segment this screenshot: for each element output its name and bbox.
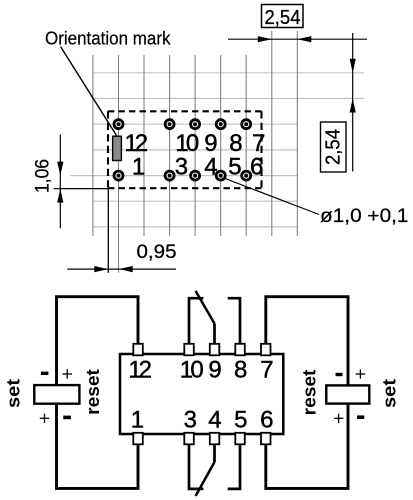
pad 10 xyxy=(165,120,174,129)
polarity plus (left coil, bottom-left) xyxy=(40,414,50,423)
svg-text:set: set xyxy=(380,379,400,408)
svg-text:reset: reset xyxy=(83,369,103,415)
wire: pin 8 fixed contact (up, bar left) xyxy=(228,298,240,345)
orientation mark bar xyxy=(113,136,122,160)
dimension 2,54 right: dimension line xyxy=(352,33,354,172)
wire: left loop (pin 12 top, around left side, to pin 1 bottom) xyxy=(57,297,139,489)
wire: pin 10 fixed contact (up, bar right) xyxy=(189,298,203,345)
pad number labels (footprint) xyxy=(125,130,266,181)
pad 5 xyxy=(216,171,225,180)
pin 9 stub xyxy=(210,344,220,356)
pin 1 stub xyxy=(133,433,143,445)
pin 12 stub xyxy=(133,344,143,356)
wire: pin 3 fixed contact (down, bar right) xyxy=(189,444,203,489)
svg-text:3: 3 xyxy=(184,406,197,433)
svg-text:1,06: 1,06 xyxy=(33,159,54,193)
pin number labels (schematic) xyxy=(128,357,273,434)
svg-text:set: set xyxy=(4,379,24,408)
dimension 1,06 left: extension line xyxy=(54,188,109,190)
pin 10 stub xyxy=(184,344,194,356)
pin 7 stub xyxy=(261,344,271,356)
coil set/reset left xyxy=(34,385,79,404)
leader line hole diameter xyxy=(223,178,320,215)
pad 6 xyxy=(242,171,251,180)
pad 3 xyxy=(165,171,174,180)
svg-text:9: 9 xyxy=(208,357,221,384)
svg-text:0,95: 0,95 xyxy=(137,242,177,263)
svg-text:1: 1 xyxy=(132,153,145,180)
svg-text:8: 8 xyxy=(234,357,247,384)
svg-text:10: 10 xyxy=(180,357,204,384)
svg-text:2,54: 2,54 xyxy=(265,6,301,29)
svg-text:2,54: 2,54 xyxy=(322,129,345,165)
svg-text:Orientation mark: Orientation mark xyxy=(45,29,171,49)
pin 8 stub xyxy=(235,344,245,356)
dimension 0,95 bottom: extension line xyxy=(107,189,109,273)
polarity minus (left coil, bottom-right) xyxy=(63,416,71,420)
wire: pin 4 common with switch blade xyxy=(213,444,216,462)
dimension 0,95 bottom: arrowheads xyxy=(94,266,108,272)
svg-text:5: 5 xyxy=(234,406,247,433)
svg-text:reset: reset xyxy=(300,370,320,416)
polarity minus (left coil, top-left) xyxy=(41,372,48,375)
dimension 2,54 top: dimension line xyxy=(228,38,367,40)
pad 12 xyxy=(114,120,123,129)
leader line to orientation mark xyxy=(61,47,117,136)
dimension 2,54 top: arrowheads xyxy=(258,36,272,42)
relay outline (dashed footprint rectangle) xyxy=(108,111,262,188)
pin 3 stub xyxy=(184,433,194,445)
svg-text:5: 5 xyxy=(228,153,241,180)
coil set/reset right xyxy=(326,385,369,403)
pad 8 xyxy=(216,120,225,129)
svg-text:6: 6 xyxy=(260,406,273,433)
relay body U1 xyxy=(120,354,283,434)
dimension 1,06 left: dimension line xyxy=(59,135,61,229)
polarity minus (right coil, top-left) xyxy=(336,373,343,376)
dimension 1,06 left: arrowheads xyxy=(57,162,63,176)
pad 4 xyxy=(191,171,200,180)
svg-text:1: 1 xyxy=(131,406,144,433)
pin 6 stub xyxy=(261,433,271,445)
dimension 2,54 right: arrowheads xyxy=(350,59,356,73)
wire: right loop (pin 7 top, around right side, to pin 6 bottom) xyxy=(266,297,348,489)
pad 7 xyxy=(242,120,251,129)
polarity plus (right coil, top-right) xyxy=(356,369,366,378)
svg-text:3: 3 xyxy=(175,153,188,180)
wire: pin 9 common with switch blade xyxy=(213,324,216,345)
polarity plus (right coil, bottom-left) xyxy=(334,414,344,423)
svg-text:4: 4 xyxy=(208,406,221,433)
grid horizontal raster lines xyxy=(70,73,364,227)
svg-text:12: 12 xyxy=(128,357,152,384)
svg-text:ø1,0 +0,1: ø1,0 +0,1 xyxy=(320,206,409,227)
svg-text:7: 7 xyxy=(260,357,273,384)
polarity minus (right coil, bottom-right) xyxy=(357,415,364,419)
dimension 0,95 bottom: dimension line xyxy=(67,268,176,270)
dimension 2,54 top: framed value xyxy=(262,5,304,28)
pin 4 stub xyxy=(210,433,220,445)
pad 9 xyxy=(191,120,200,129)
dimension 2,54 right: framed value (rotated) xyxy=(321,122,347,172)
polarity plus (left coil, top-right) xyxy=(63,369,73,378)
svg-text:4: 4 xyxy=(204,153,217,180)
wire: pin 5 fixed contact (down, bar left) xyxy=(228,444,240,489)
grid vertical raster lines xyxy=(93,31,297,273)
pin 5 stub xyxy=(235,433,245,445)
pad 1 xyxy=(114,171,123,180)
svg-text:6: 6 xyxy=(250,153,263,180)
